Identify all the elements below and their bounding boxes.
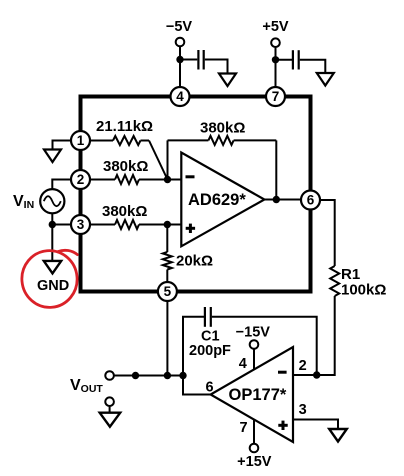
wire: source top to pin 2 [52,180,71,190]
node: VIN low / ground tie [49,221,56,228]
svg-text:OP177*: OP177* [229,386,287,404]
resistor R1 100k ohm [330,266,339,296]
wire: box left down to OP177 output [183,376,211,395]
ground: pin 1 [44,150,61,163]
wire: pin 4 stem [253,349,255,370]
node: VOUT junction 1 [132,372,139,379]
resistor 380k ohm (feedback) [168,139,209,141]
svg-text:4: 4 [176,89,184,104]
svg-text:6: 6 [205,380,213,396]
svg-text:7: 7 [272,89,280,104]
annotation: red hand-drawn circle around GND [20,248,80,309]
svg-text:1: 1 [77,133,85,148]
svg-text:+15V: +15V [237,454,272,470]
ground: GND (signal ground) [44,261,61,274]
op-amp U1 AD629 [181,153,264,247]
capacitor: -5V decoupling [197,50,199,70]
svg-text:380kΩ: 380kΩ [103,158,148,175]
wire: tap to capacitor [180,59,197,61]
wire: tap to capacitor [276,59,293,61]
wire: R1 bottom to OP177 inverting input [294,296,335,375]
terminal VOUT [105,371,114,380]
wire: top supply bus [79,95,313,99]
pin 1 (AD629) [71,131,90,150]
wire: capacitor to ground [205,60,228,74]
resistor 380k ohm (pin2 to inverting input) [90,179,115,181]
wire: feedback down to output node [275,140,277,199]
wire: bottom bus [79,290,313,294]
svg-text:4: 4 [239,356,247,372]
wire: capacitor to ground [300,60,326,73]
ground: -5V decoupling [219,74,236,87]
node: AD629 inverting input [164,176,171,183]
wire: +5V to pin 7 [275,47,277,88]
node: AD629 non-inverting input [164,221,171,228]
resistor 20k ohm [163,252,172,270]
terminal: VOUT ground reference [105,397,114,406]
source VIN (sine) [40,189,64,213]
capacitor: +5V decoupling [292,50,294,69]
wire: 20k to pin 5 [166,270,168,283]
node: AD629 output / feedback junction [273,196,280,203]
svg-text:20kΩ: 20kΩ [176,253,213,270]
pin 2 (AD629) [71,170,90,189]
ground: +5V decoupling [317,73,334,86]
pin 5 (AD629 ref) [158,282,177,301]
wire: left input bus [79,95,83,294]
node: VOUT junction 3 (C1 box left) [179,372,186,379]
wire: pin 5 down to output line [166,301,168,376]
ground: OP177 pin 3 [329,429,347,442]
svg-text:21.11kΩ: 21.11kΩ [96,118,153,135]
pin 6 (AD629 output) [301,191,320,210]
svg-text:200pF: 200pF [189,343,231,359]
resistor 21.11k ohm (pin1 to inverting node) [90,140,113,142]
wire: C1 top left segment [183,317,204,376]
wire: node to AD629 plus input [167,224,182,226]
ground: VOUT reference [100,413,121,427]
wire: VOUT line [114,375,183,377]
wire: right output bus [309,95,313,294]
svg-text:6: 6 [307,193,315,208]
terminal -5V [176,38,185,47]
wire: -5V to pin 4 [179,46,181,88]
svg-text:3: 3 [299,402,307,418]
svg-text:7: 7 [239,420,247,436]
wire: inverting node up to feedback [167,140,169,179]
node: -5V decoupling tap [176,56,183,63]
node: OP177 inverting input junction [313,371,320,378]
svg-text:+5V: +5V [262,19,289,35]
wire: pin 7 stem [253,420,255,444]
node: +5V decoupling tap [272,56,279,63]
svg-text:−5V: −5V [166,19,193,35]
wire: node down to GND [51,225,53,261]
svg-text:GND: GND [37,278,69,294]
svg-text:3: 3 [77,217,85,232]
wire: node to AD629 minus input [168,179,183,181]
svg-text:2: 2 [77,172,85,187]
wire: AD629 output to pin 6 [264,199,301,201]
wire: C1 right segment down to inverting node [212,317,317,375]
wire: terminal to ground [109,406,111,413]
svg-text:2: 2 [299,358,307,374]
svg-text:380kΩ: 380kΩ [102,203,147,220]
op-amp U2 OP177 (output to the left) [211,347,293,442]
pin 7 (AD629 +Vs) [266,87,285,106]
wire: non-inverting node to 20k [166,225,168,253]
resistor 380k ohm (pin3 to non-inverting input) [90,224,115,226]
capacitor C1 200pF [204,307,206,327]
wire: pin 6 to R1 top [320,200,335,266]
svg-text:5: 5 [164,284,172,299]
terminal +15V [250,444,259,453]
wire: pin 1 to ground [53,141,72,150]
svg-text:−15V: −15V [236,325,271,341]
wire: source bottom to pin 3 row [52,213,71,224]
svg-text:AD629*: AD629* [188,191,246,209]
node: VOUT junction 2 (pin 5 wire) [164,372,171,379]
svg-text:100kΩ: 100kΩ [341,282,386,299]
terminal +5V [271,38,280,47]
pin 3 (AD629) [71,215,90,234]
svg-text:380kΩ: 380kΩ [200,120,245,137]
pin 4 (AD629 -Vs) [171,87,190,106]
svg-text:R1: R1 [341,266,360,283]
terminal -15V [250,340,259,349]
wire: pin 3 to ground [293,420,338,430]
